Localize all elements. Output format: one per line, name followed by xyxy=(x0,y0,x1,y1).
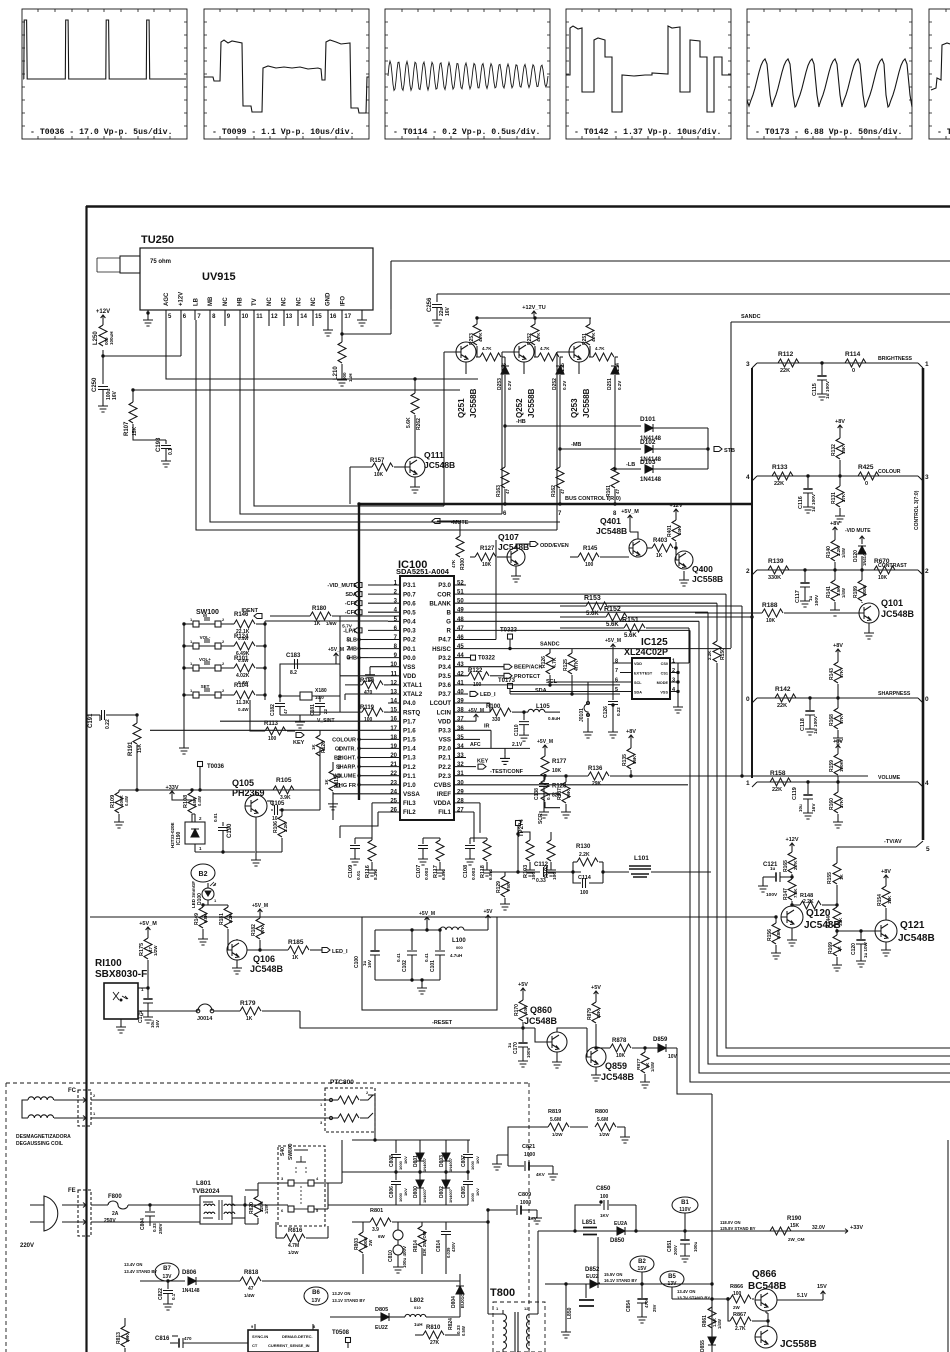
svg-text:R179: R179 xyxy=(240,1000,256,1007)
svg-text:-MB: -MB xyxy=(571,442,581,448)
svg-text:10K: 10K xyxy=(552,768,562,774)
svg-text:33K: 33K xyxy=(838,917,843,926)
svg-text:B: B xyxy=(447,609,452,616)
diode D251 xyxy=(614,357,616,365)
svg-text:42: 42 xyxy=(457,671,464,677)
capacitor C126 0.22 xyxy=(612,663,614,700)
svg-text:0.1: 0.1 xyxy=(546,793,551,800)
resistor R155 1K xyxy=(833,863,841,884)
svg-text:P3.0: P3.0 xyxy=(438,582,451,589)
transistor Q106 JC548B xyxy=(227,940,247,960)
svg-text:R119: R119 xyxy=(360,705,375,711)
svg-text:16V: 16V xyxy=(367,960,372,968)
svg-text:CONTROL 3(7:0): CONTROL 3(7:0) xyxy=(914,490,920,530)
svg-text:C105: C105 xyxy=(270,801,285,807)
svg-text:470: 470 xyxy=(184,1336,192,1341)
svg-text:T0508: T0508 xyxy=(332,1330,350,1336)
svg-text:D101: D101 xyxy=(640,416,656,423)
svg-text:BEEP/ACK: BEEP/ACK xyxy=(514,665,542,671)
svg-text:C100: C100 xyxy=(354,956,360,968)
svg-text:R116: R116 xyxy=(365,865,371,878)
svg-text:R803: R803 xyxy=(354,1238,360,1250)
svg-text:1N4007: 1N4007 xyxy=(448,1188,453,1203)
svg-text:R127: R127 xyxy=(480,546,495,552)
svg-text:1K: 1K xyxy=(314,621,321,627)
svg-text:R108: R108 xyxy=(183,795,189,808)
resistor R252 4.7K xyxy=(534,318,536,324)
svg-text:1u: 1u xyxy=(770,866,776,871)
svg-text:8.2K: 8.2K xyxy=(373,869,379,880)
svg-text:C806: C806 xyxy=(389,1186,395,1198)
svg-text:82K 2W_OM: 82K 2W_OM xyxy=(422,1231,427,1256)
svg-text:+5V_M: +5V_M xyxy=(537,739,553,745)
svg-text:47: 47 xyxy=(615,488,620,494)
svg-text:22K: 22K xyxy=(596,1009,601,1018)
svg-text:R170: R170 xyxy=(514,1004,520,1016)
svg-text:LED_I: LED_I xyxy=(480,692,496,698)
svg-text:10: 10 xyxy=(390,662,397,668)
resistor R816 4.7M xyxy=(276,1237,284,1239)
resistor R162 xyxy=(559,465,561,467)
svg-text:SDA: SDA xyxy=(345,592,357,598)
svg-text:4.7K: 4.7K xyxy=(478,332,483,342)
svg-text:LB: LB xyxy=(193,297,199,306)
svg-text:50: 50 xyxy=(457,599,464,605)
svg-text:L105: L105 xyxy=(536,704,550,710)
svg-text:56K: 56K xyxy=(632,755,637,764)
svg-text:18: 18 xyxy=(390,735,397,741)
wire XTAL2 xyxy=(345,694,388,700)
svg-text:Q105: Q105 xyxy=(232,778,254,788)
svg-text:0.22: 0.22 xyxy=(616,707,621,716)
svg-text:47K: 47K xyxy=(839,715,844,724)
resistor R152 5.6K xyxy=(560,616,606,618)
resistor R801 3.9 6W xyxy=(352,1221,370,1223)
svg-text:Q860: Q860 xyxy=(530,1005,552,1015)
svg-text:EU2A: EU2A xyxy=(614,1221,628,1227)
svg-text:JC548B: JC548B xyxy=(601,1072,635,1082)
svg-text:1: 1 xyxy=(746,780,750,787)
svg-text:VSS: VSS xyxy=(439,737,451,744)
svg-text:2.2K: 2.2K xyxy=(707,650,712,660)
wire collector Q252 xyxy=(534,346,536,357)
resistor R106 2.2K xyxy=(281,810,283,816)
svg-text:10K: 10K xyxy=(677,526,682,535)
svg-text:- T0142 - 1.37 Vp-p. 10us/div: - T0142 - 1.37 Vp-p. 10us/div. xyxy=(574,127,721,137)
svg-text:+5V_M: +5V_M xyxy=(139,921,157,927)
svg-text:FIL3: FIL3 xyxy=(403,800,416,807)
svg-text:J0101: J0101 xyxy=(579,708,585,722)
waveform trace T0036 pulses xyxy=(24,20,186,79)
capacitor C190 0.01 xyxy=(222,822,224,826)
svg-text:R141: R141 xyxy=(826,586,832,598)
svg-text:R132: R132 xyxy=(831,444,837,456)
svg-text:+5V_M: +5V_M xyxy=(252,903,268,909)
svg-text:JC548B: JC548B xyxy=(596,526,627,536)
svg-text:COR: COR xyxy=(437,591,451,598)
wire LCOUT xyxy=(466,703,490,712)
svg-text:100V: 100V xyxy=(526,1047,531,1058)
svg-text:4.7K: 4.7K xyxy=(574,660,580,671)
svg-text:12: 12 xyxy=(271,314,278,320)
svg-text:R142: R142 xyxy=(775,686,791,693)
tuner TU250 UV915 xyxy=(97,234,373,310)
svg-text:R820: R820 xyxy=(249,1202,255,1214)
svg-text:1K: 1K xyxy=(324,778,329,785)
resistor R185 1K xyxy=(260,949,288,951)
svg-text:C191: C191 xyxy=(88,713,94,728)
svg-text:2.2K: 2.2K xyxy=(283,822,288,832)
wire -HB row xyxy=(504,385,506,465)
resistor R163 xyxy=(504,465,506,467)
svg-text:C256: C256 xyxy=(427,297,433,312)
svg-text:47: 47 xyxy=(283,708,288,714)
svg-text:1N4007: 1N4007 xyxy=(422,1157,427,1172)
svg-text:250V: 250V xyxy=(158,1223,163,1234)
capacitor C120 xyxy=(860,931,862,939)
wire bus corners to right edge xyxy=(690,1077,950,1082)
svg-text:1K: 1K xyxy=(246,1016,253,1022)
wire collector Q253 xyxy=(589,346,591,357)
resistor R300 47K xyxy=(459,530,461,536)
svg-text:T0322: T0322 xyxy=(478,656,496,662)
svg-text:C190: C190 xyxy=(227,823,233,838)
wire pin1 xyxy=(138,987,148,989)
svg-text:1uH: 1uH xyxy=(348,373,353,382)
svg-text:C822: C822 xyxy=(158,1288,164,1300)
svg-text:EU2Z: EU2Z xyxy=(586,1274,599,1280)
svg-text:D801: D801 xyxy=(413,1155,419,1167)
svg-text:C816: C816 xyxy=(155,1336,170,1342)
+12V_TU rail xyxy=(532,311,537,318)
svg-text:3: 3 xyxy=(925,474,929,481)
svg-text:P0.3: P0.3 xyxy=(403,628,416,635)
svg-text:P0.0: P0.0 xyxy=(403,655,416,662)
svg-text:1K: 1K xyxy=(839,873,844,880)
svg-text:R816: R816 xyxy=(288,1228,303,1234)
bridge mid rail xyxy=(342,1171,468,1173)
capacitor C102 xyxy=(411,930,413,950)
resistor R255 xyxy=(534,356,538,358)
svg-text:- T0036 - 17.0 Vp-p. 5us/div: - T0036 - 17.0 Vp-p. 5us/div. xyxy=(30,127,173,137)
resistor R867 2.7K xyxy=(726,1297,729,1300)
svg-text:D802: D802 xyxy=(439,1186,445,1198)
resistor R135 56K xyxy=(629,735,634,742)
capacitor C115 xyxy=(820,361,823,364)
svg-text:13V: 13V xyxy=(668,1281,678,1287)
resistor R189 330K xyxy=(861,570,863,580)
svg-text:12: 12 xyxy=(524,1306,529,1311)
svg-text:SDA: SDA xyxy=(634,690,642,694)
svg-text:-HB: -HB xyxy=(516,419,526,425)
wire NC stubs xyxy=(225,320,313,326)
svg-text:2: 2 xyxy=(925,568,929,575)
svg-text:C126: C126 xyxy=(603,706,609,718)
svg-text:TV: TV xyxy=(252,298,258,306)
svg-text:JC558B: JC558B xyxy=(692,574,723,584)
resistor R124 6.49K xyxy=(231,645,234,647)
svg-text:4KV: 4KV xyxy=(528,1216,537,1221)
wire B5 rail down xyxy=(689,1047,691,1049)
svg-text:13.1V STAND BY: 13.1V STAND BY xyxy=(332,1298,365,1303)
diode D801 xyxy=(419,1148,421,1153)
oscillogram box T0 xyxy=(929,9,950,139)
svg-text:4.7K: 4.7K xyxy=(552,657,558,668)
resistor R803 100K 2W xyxy=(362,1221,364,1223)
resistor R165 2.7K xyxy=(790,843,795,850)
svg-text:1000: 1000 xyxy=(520,1200,531,1206)
svg-text:R135: R135 xyxy=(622,754,628,766)
svg-text:NC: NC xyxy=(282,297,288,306)
resistor R122 100 / PROTECT xyxy=(466,675,468,677)
svg-text:2.2K: 2.2K xyxy=(803,899,814,905)
svg-text:16.1V STAND BY: 16.1V STAND BY xyxy=(604,1278,637,1283)
capacitor C109 0.01 xyxy=(354,838,356,844)
svg-text:B7: B7 xyxy=(163,1266,171,1272)
bridge bottom rail xyxy=(328,1204,468,1206)
svg-text:+12V: +12V xyxy=(786,837,799,843)
resistor R149 6.8K xyxy=(202,882,204,907)
bus taps 8,7,6 xyxy=(357,638,360,641)
capacitor C851 100u 200V xyxy=(684,1231,686,1239)
svg-text:R824: R824 xyxy=(448,1318,454,1330)
resistor R112 22K xyxy=(778,359,799,367)
svg-text:+5V_M: +5V_M xyxy=(419,911,435,917)
svg-text:1u: 1u xyxy=(507,1042,512,1048)
resistor R819 5.6M xyxy=(540,1126,548,1128)
svg-text:JC558B: JC558B xyxy=(469,388,478,418)
svg-text:100u 400V: 100u 400V xyxy=(402,1246,407,1268)
svg-text:P1.4: P1.4 xyxy=(403,746,416,753)
svg-text:R800: R800 xyxy=(595,1109,608,1115)
svg-text:R126: R126 xyxy=(541,656,547,668)
svg-text:0.41: 0.41 xyxy=(396,953,401,962)
svg-text:C120: C120 xyxy=(851,943,857,955)
svg-text:LCIN: LCIN xyxy=(437,709,452,716)
wire GND pin xyxy=(327,320,329,326)
svg-text:1/2W: 1/2W xyxy=(264,1204,269,1214)
svg-text:0.6uH: 0.6uH xyxy=(548,716,560,721)
svg-text:R159: R159 xyxy=(829,760,835,772)
resistor R147 7.5K xyxy=(791,877,793,879)
diode D802 xyxy=(445,1172,447,1180)
svg-text:R100: R100 xyxy=(486,704,501,710)
svg-text:40: 40 xyxy=(457,689,464,695)
L250 inductor xyxy=(102,322,104,370)
resistor R105 3.9K xyxy=(267,800,271,802)
svg-text:46: 46 xyxy=(457,635,464,641)
svg-text:4.7K: 4.7K xyxy=(540,346,550,351)
svg-text:-CF1: -CF1 xyxy=(345,610,357,616)
svg-text:110V: 110V xyxy=(679,1207,691,1213)
svg-text:0.22: 0.22 xyxy=(105,719,111,729)
svg-text:+5V_M: +5V_M xyxy=(605,638,621,644)
svg-text:R147: R147 xyxy=(783,888,789,900)
svg-text:D251: D251 xyxy=(607,378,613,390)
wire -LB row xyxy=(614,385,616,465)
svg-text:+5V: +5V xyxy=(591,985,601,991)
svg-text:49: 49 xyxy=(457,608,464,614)
svg-text:P0.7: P0.7 xyxy=(403,591,416,598)
badge B6 xyxy=(304,1287,328,1305)
resistor R104 11.3K xyxy=(231,694,234,696)
svg-text:VOLUME: VOLUME xyxy=(878,775,901,781)
svg-text:R144: R144 xyxy=(826,916,832,928)
svg-text:VDD: VDD xyxy=(403,673,417,680)
svg-text:JC548B: JC548B xyxy=(898,933,935,944)
svg-text:R133: R133 xyxy=(772,464,788,471)
svg-text:J0014: J0014 xyxy=(197,1016,213,1022)
svg-text:22K: 22K xyxy=(777,703,787,709)
svg-text:2W: 2W xyxy=(368,1240,373,1246)
svg-text:L101: L101 xyxy=(634,855,649,862)
svg-text:10u: 10u xyxy=(798,804,803,812)
svg-text:R120: R120 xyxy=(321,741,327,753)
svg-text:14: 14 xyxy=(300,314,307,320)
wire SDA to IC125 xyxy=(510,691,620,693)
capacitor C808 xyxy=(395,1148,397,1153)
svg-text:6: 6 xyxy=(346,655,350,662)
+33V arrow xyxy=(838,1229,848,1234)
svg-text:44: 44 xyxy=(457,653,464,659)
svg-text:- T0173 - 6.88 Vp-p. 50ns/di: - T0173 - 6.88 Vp-p. 50ns/div. xyxy=(755,127,902,137)
wire R136 row xyxy=(609,775,611,777)
svg-text:R153: R153 xyxy=(584,595,601,602)
svg-text:RI100: RI100 xyxy=(95,958,122,969)
bridge mid/bottom rails xyxy=(396,1140,468,1148)
svg-text:C102: C102 xyxy=(402,960,408,972)
ground pin24 xyxy=(333,794,388,800)
svg-text:R143: R143 xyxy=(829,668,835,680)
svg-text:5.6M: 5.6M xyxy=(550,1117,561,1123)
svg-text:C814: C814 xyxy=(436,1240,442,1252)
svg-text:4: 4 xyxy=(925,780,929,787)
svg-text:0.1: 0.1 xyxy=(168,448,174,455)
svg-text:R149: R149 xyxy=(194,913,200,925)
svg-text:FC: FC xyxy=(68,1088,77,1094)
svg-text:-TV/AV: -TV/AV xyxy=(884,839,902,845)
svg-text:4.7K: 4.7K xyxy=(482,346,492,351)
svg-text:R819: R819 xyxy=(548,1109,561,1115)
svg-text:0.33: 0.33 xyxy=(536,878,546,884)
svg-text:C805: C805 xyxy=(461,1186,467,1198)
svg-text:DEGAUSSING COIL: DEGAUSSING COIL xyxy=(16,1141,63,1147)
svg-text:27K: 27K xyxy=(839,799,844,808)
svg-text:29: 29 xyxy=(457,789,464,795)
svg-text:2W: 2W xyxy=(733,1305,741,1310)
connector STB xyxy=(714,447,722,452)
svg-text:34: 34 xyxy=(457,744,464,750)
svg-text:B2: B2 xyxy=(638,1259,646,1265)
capacitor C854 470u 25V xyxy=(641,1284,643,1298)
svg-text:IR: IR xyxy=(484,723,490,729)
svg-text:Q252: Q252 xyxy=(515,398,524,418)
svg-text:R136: R136 xyxy=(588,766,603,772)
svg-text:0: 0 xyxy=(852,368,855,374)
svg-text:JC548B: JC548B xyxy=(250,964,284,974)
resistor R262 5.6K xyxy=(414,379,416,393)
capacitor C814 xyxy=(445,1222,447,1230)
svg-text:-VID_MUTE: -VID_MUTE xyxy=(327,583,357,589)
svg-text:R866: R866 xyxy=(730,1284,743,1290)
control bus taps colour..chgfr xyxy=(357,738,360,741)
IC125 right common to ground xyxy=(677,663,679,703)
svg-text:6.8K: 6.8K xyxy=(203,913,208,923)
svg-text:10K: 10K xyxy=(766,618,776,624)
power supply dashed boundary xyxy=(6,1083,529,1352)
switch SET xyxy=(193,692,199,698)
svg-text:2.2K: 2.2K xyxy=(228,913,233,923)
resistor R103 100 xyxy=(529,838,531,840)
control row CONTRAST xyxy=(752,570,923,575)
svg-text:16V: 16V xyxy=(155,1020,160,1028)
ground SW100 xyxy=(183,740,185,744)
svg-text:4.7K: 4.7K xyxy=(595,346,605,351)
svg-text:C117: C117 xyxy=(795,590,801,603)
svg-text:P0.6: P0.6 xyxy=(403,600,416,607)
badge B2 xyxy=(191,864,215,882)
svg-text:TP274: TP274 xyxy=(519,819,525,837)
svg-text:C181: C181 xyxy=(310,704,316,716)
svg-text:C854: C854 xyxy=(626,1300,632,1312)
svg-text:R403: R403 xyxy=(653,538,668,544)
svg-text:R810: R810 xyxy=(426,1325,441,1331)
svg-text:P3.2: P3.2 xyxy=(438,655,451,662)
svg-text:16: 16 xyxy=(330,314,337,320)
svg-text:1u 100V: 1u 100V xyxy=(825,380,831,399)
svg-text:47: 47 xyxy=(457,626,464,632)
svg-text:24: 24 xyxy=(390,789,397,795)
resistor R800 5.6M xyxy=(595,1123,616,1131)
wire SANDC top xyxy=(731,322,950,648)
wire to right edge (IF out) xyxy=(391,261,950,309)
svg-text:25: 25 xyxy=(390,798,397,804)
svg-text:2.7K: 2.7K xyxy=(793,860,798,870)
transistor Q401 JC548B xyxy=(629,539,647,557)
svg-text:PROTECT: PROTECT xyxy=(514,674,541,680)
svg-text:0.41: 0.41 xyxy=(424,953,429,962)
bus control heavy line xyxy=(359,503,752,506)
svg-text:LED 3mmGF: LED 3mmGF xyxy=(191,881,196,908)
svg-text:D805: D805 xyxy=(375,1307,388,1313)
svg-text:R150: R150 xyxy=(720,648,726,660)
svg-text:RSTQ: RSTQ xyxy=(403,709,420,716)
svg-text:SDA5251-A004: SDA5251-A004 xyxy=(396,567,450,576)
wire 13V row xyxy=(672,1298,728,1300)
diode D806 1N4148 xyxy=(140,1280,185,1282)
svg-text:AFC: AFC xyxy=(470,742,481,748)
svg-text:-TEST/CONF: -TEST/CONF xyxy=(490,769,524,775)
wire P4.7 xyxy=(466,540,496,640)
svg-text:LCOUT: LCOUT xyxy=(430,700,452,707)
wire base Q253 xyxy=(557,352,569,530)
wire P1.7 long xyxy=(220,720,388,722)
resistor R157 10K xyxy=(350,466,372,468)
resistor R814 82K xyxy=(421,1222,423,1226)
resistor R182 47K xyxy=(258,909,263,916)
svg-text:R131: R131 xyxy=(831,492,837,504)
svg-text:11.3K: 11.3K xyxy=(236,700,249,706)
waveform trace T0099 square xyxy=(204,40,369,113)
svg-text:000: 000 xyxy=(342,372,347,380)
svg-text:1K: 1K xyxy=(837,945,842,952)
svg-text:1KV: 1KV xyxy=(403,1188,408,1196)
resistor R180 1K IDENT xyxy=(254,614,262,619)
L851 to D852 wire xyxy=(598,1237,600,1283)
svg-text:8: 8 xyxy=(615,659,618,665)
svg-text:R162: R162 xyxy=(551,485,557,497)
tuner pins xyxy=(165,310,167,320)
